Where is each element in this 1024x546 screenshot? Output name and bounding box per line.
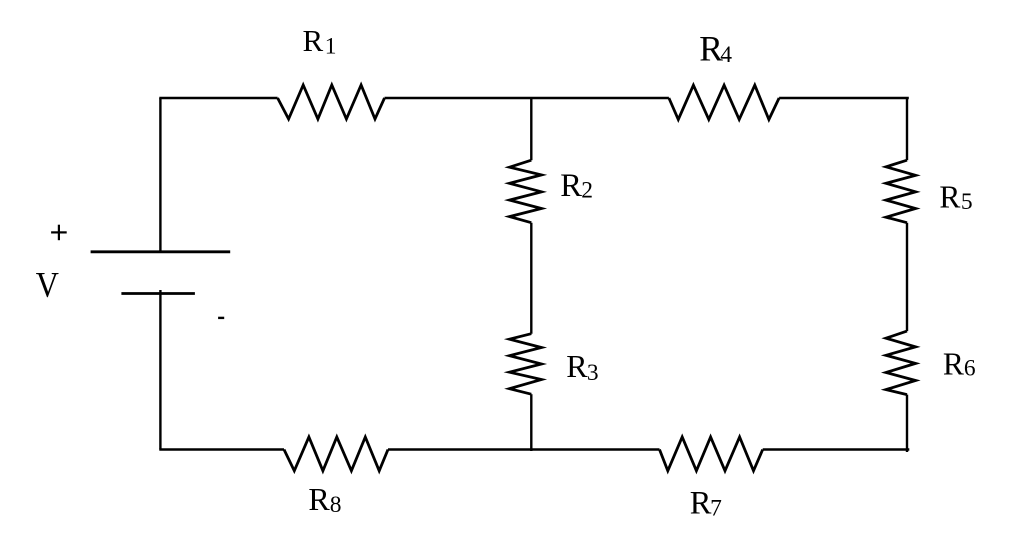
svg-text:V: V bbox=[36, 266, 60, 305]
wire R6 to bottom-right corner bbox=[906, 395, 908, 452]
label - (negative terminal) bbox=[218, 317, 224, 319]
wire right side upper bbox=[906, 98, 908, 160]
label R3 bbox=[566, 348, 598, 386]
wire left side upper (to battery + plate) bbox=[159, 98, 161, 252]
wire R4 to top-right corner bbox=[779, 97, 909, 99]
label R5 bbox=[939, 180, 972, 215]
resistor R6 bbox=[886, 331, 916, 395]
svg-text:4: 4 bbox=[720, 42, 732, 68]
resistor R2 bbox=[510, 160, 542, 223]
resistor R3 bbox=[510, 334, 542, 395]
wire middle branch top bbox=[530, 98, 532, 160]
label + (positive terminal) bbox=[51, 225, 67, 241]
svg-text:R: R bbox=[303, 23, 324, 58]
wire top-left to R1 bbox=[159, 97, 277, 99]
wire R7 to R8 (through node B) bbox=[388, 448, 660, 450]
resistor R4 bbox=[669, 85, 779, 119]
svg-text:R: R bbox=[308, 481, 330, 517]
label R4 bbox=[699, 29, 732, 69]
wire R1 to R4 (through node A) bbox=[385, 97, 669, 99]
svg-text:7: 7 bbox=[710, 496, 722, 522]
svg-text:2: 2 bbox=[581, 178, 593, 204]
wire R8 to bottom-left corner bbox=[159, 448, 284, 450]
svg-text:5: 5 bbox=[961, 189, 973, 215]
svg-text:8: 8 bbox=[330, 492, 342, 518]
resistor R5 bbox=[886, 160, 916, 223]
svg-text:R: R bbox=[566, 348, 588, 384]
label R7 bbox=[690, 486, 722, 522]
wire R3 to bottom wire (node B) bbox=[530, 394, 532, 451]
label R2 bbox=[560, 168, 593, 204]
wire R5 to R6 bbox=[906, 223, 908, 331]
svg-text:3: 3 bbox=[587, 360, 599, 386]
wire bottom-right to R7 bbox=[763, 448, 910, 450]
resistor R7 bbox=[660, 437, 763, 471]
resistor R1 bbox=[278, 85, 385, 119]
battery V negative plate bbox=[121, 292, 194, 295]
battery V positive plate bbox=[91, 250, 231, 253]
label R1 bbox=[303, 23, 337, 60]
svg-text:R: R bbox=[943, 347, 964, 382]
wire left side lower (battery - plate to bottom wire) bbox=[159, 290, 161, 450]
svg-text:R: R bbox=[939, 180, 960, 215]
svg-text:R: R bbox=[690, 486, 712, 522]
label R8 bbox=[308, 481, 341, 518]
resistor R8 bbox=[284, 437, 388, 471]
wire R2 to R3 bbox=[530, 223, 532, 334]
svg-text:1: 1 bbox=[325, 34, 337, 60]
svg-text:6: 6 bbox=[964, 356, 976, 382]
label R6 bbox=[943, 347, 976, 382]
svg-text:R: R bbox=[560, 168, 582, 204]
